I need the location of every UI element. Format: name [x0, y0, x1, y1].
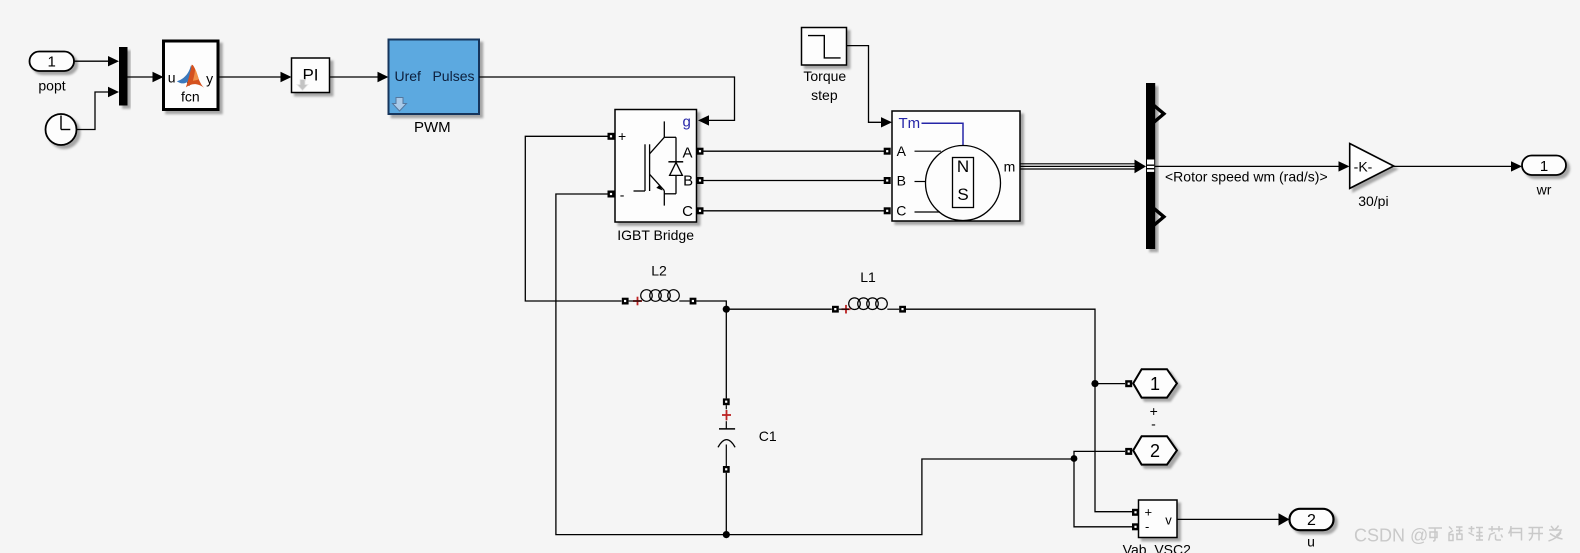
bus selector chevron top — [1153, 105, 1164, 123]
wire clock to mux in2 — [77, 87, 120, 130]
motor stator lead C — [915, 211, 941, 213]
svg-text:Uref: Uref — [395, 68, 422, 84]
svg-text:+: + — [1145, 505, 1153, 520]
motor Tm internal blue wire — [922, 123, 964, 145]
watermark CSDN — [1354, 526, 1563, 546]
svg-text:Pulses: Pulses — [432, 68, 474, 84]
bus wire motor m to bus selector — [1020, 160, 1146, 174]
motor port square C — [884, 207, 891, 214]
svg-text:Vab_VSC2: Vab_VSC2 — [1123, 542, 1191, 553]
PMSM motor block — [892, 111, 1020, 221]
svg-text:-K-: -K- — [1354, 159, 1373, 175]
IGBT bridge port square + — [608, 133, 615, 140]
svg-text:S: S — [957, 185, 968, 204]
svg-text:fcn: fcn — [181, 88, 200, 104]
inport 1 (popt) — [30, 52, 75, 94]
clock block — [46, 114, 77, 145]
svg-text:PWM: PWM — [414, 119, 451, 136]
inductor L1 — [832, 269, 906, 314]
svg-text:u: u — [1307, 534, 1315, 550]
PI controller block — [292, 58, 330, 93]
svg-text:IGBT Bridge: IGBT Bridge — [617, 227, 694, 243]
svg-text:u: u — [168, 70, 176, 86]
svg-text:2: 2 — [1307, 512, 1316, 529]
svg-text:B: B — [897, 172, 906, 188]
motor stator lead B — [915, 181, 927, 183]
plus minus annotation — [1150, 403, 1158, 432]
junction node J3 (C1 bottom) — [723, 531, 730, 538]
svg-text:-: - — [1151, 416, 1156, 432]
wire Vab_VSC2 v to outport u — [1177, 513, 1290, 525]
svg-text:wr: wr — [1536, 181, 1552, 197]
PWM subsystem block — [389, 40, 480, 137]
wire PI to PWM — [330, 72, 389, 82]
svg-text:C: C — [682, 203, 693, 220]
svg-text:CSDN @: CSDN @ — [1354, 526, 1428, 546]
wire phase B IGBT to motor — [704, 180, 885, 182]
svg-text:+: + — [618, 128, 626, 144]
svg-text:m: m — [1004, 159, 1016, 175]
svg-text:-: - — [1145, 519, 1149, 534]
wire gain to outport wr — [1394, 161, 1522, 171]
svg-text:A: A — [682, 144, 692, 161]
svg-text:1: 1 — [1540, 158, 1548, 175]
Vab_VSC2 port square - — [1132, 523, 1139, 530]
svg-text:g: g — [683, 114, 691, 131]
connection port hexagon 2 — [1133, 436, 1177, 464]
wire J2 to port 1 terminal — [1095, 383, 1125, 385]
svg-text:C1: C1 — [759, 428, 777, 444]
bus selector chevron bottom — [1153, 208, 1164, 226]
outport 1 (wr) — [1522, 156, 1566, 198]
motor stator lead A — [915, 150, 942, 152]
IGBT bridge port square B — [697, 177, 704, 184]
svg-text:2: 2 — [1150, 441, 1160, 461]
svg-text:<Rotor speed wm (rad/s)>: <Rotor speed wm (rad/s)> — [1165, 168, 1328, 184]
IGBT bridge port square C — [697, 207, 704, 214]
wire IGBT minus DC return rail — [556, 194, 1071, 535]
MATLAB membrane logo — [177, 65, 204, 88]
wire L1 to right vertical — [906, 309, 1133, 512]
outport 2 (u) — [1290, 509, 1334, 550]
svg-text:v: v — [1165, 513, 1172, 528]
mux MUX1 — [119, 47, 128, 106]
connection port hexagon 1 — [1133, 369, 1177, 397]
IGBT bridge port square A — [697, 148, 704, 155]
wire torque step to motor Tm — [847, 46, 893, 128]
voltage measurement block Vab_VSC2 — [1123, 500, 1191, 553]
svg-text:N: N — [957, 157, 969, 176]
bus selector bar — [1146, 83, 1155, 249]
svg-text:-: - — [620, 187, 625, 203]
wire PWM Pulses to IGBT g — [479, 77, 735, 126]
junction node J1 — [723, 306, 730, 313]
port 2 terminal square — [1125, 448, 1132, 455]
svg-text:step: step — [811, 87, 838, 103]
svg-text:C: C — [896, 203, 906, 219]
port 1 terminal square — [1125, 380, 1132, 387]
svg-text:A: A — [897, 143, 907, 159]
inductor L2 — [622, 263, 697, 306]
svg-text:1: 1 — [48, 54, 56, 71]
IGBT antiparallel diode D1 — [668, 137, 683, 194]
capacitor C1 — [718, 398, 777, 534]
svg-text:L1: L1 — [860, 269, 876, 285]
motor magnet rectangle — [953, 158, 974, 208]
wire popt to mux in1 — [74, 56, 119, 66]
wire fcn to PI — [218, 72, 292, 82]
wire J1 to C1 top — [725, 309, 727, 398]
wire phase A IGBT to motor — [704, 150, 885, 152]
wire bus selector to gain — [1155, 161, 1350, 184]
wire J4 to port 2 — [1074, 451, 1125, 458]
IGBT Bridge block — [615, 110, 697, 243]
wire IGBT plus to L2 — [525, 136, 621, 301]
motor port square A — [884, 148, 891, 155]
svg-text:30/pi: 30/pi — [1358, 193, 1388, 209]
motor port square B — [884, 177, 891, 184]
IGBT transistor icon Q1 — [634, 121, 677, 205]
wire phase C IGBT to motor — [704, 210, 885, 212]
junction node J2 — [1091, 380, 1098, 387]
svg-text:L2: L2 — [651, 263, 667, 279]
MATLAB Function block U_fcn — [164, 41, 219, 110]
svg-text:B: B — [683, 173, 693, 190]
motor rotor circle — [926, 146, 1001, 221]
junction node J4 — [1071, 455, 1078, 462]
svg-text:Torque: Torque — [803, 68, 846, 84]
svg-text:popt: popt — [38, 78, 65, 94]
gain block 30/pi — [1350, 144, 1394, 210]
Torque step block — [802, 28, 847, 104]
wire J4 to Vab minus — [1074, 459, 1133, 527]
wire junction J1 to L1 — [726, 308, 832, 310]
IGBT bridge port square - — [608, 191, 615, 198]
wire mux to fcn — [128, 72, 164, 82]
svg-text:y: y — [206, 70, 213, 86]
Vab_VSC2 port square + — [1132, 509, 1139, 516]
wire L2 to junction — [696, 301, 726, 309]
svg-text:Tm: Tm — [899, 115, 921, 132]
svg-text:1: 1 — [1150, 374, 1160, 394]
